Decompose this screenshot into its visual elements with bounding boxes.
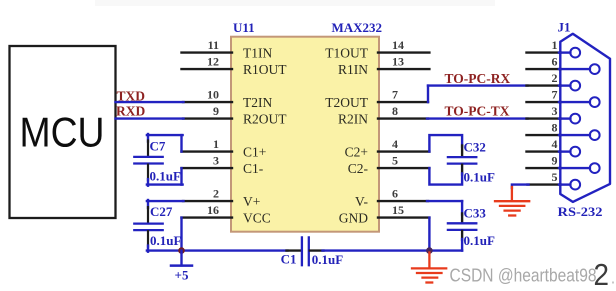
svg-text:R1OUT: R1OUT	[243, 62, 287, 77]
capacitor C33 upper lead	[461, 214, 463, 223]
wire TO-PC-RX vertical elbow at pin 7	[427, 86, 429, 103]
svg-text:C27: C27	[150, 204, 173, 219]
J1 pin 9 stub	[527, 167, 561, 169]
svg-text:RXD: RXD	[116, 104, 145, 119]
J1 pin 8 circle	[590, 130, 600, 140]
capacitor C33 plates	[448, 223, 476, 230]
svg-text:6: 6	[392, 187, 398, 201]
wire C7 upper-left lead	[147, 134, 149, 142]
svg-text:GND: GND	[339, 210, 368, 225]
wire ground bus right segment	[323, 249, 463, 251]
wire +5 bus left segment	[147, 249, 288, 251]
wire C7 top vertical from pin 1	[180, 135, 182, 152]
wire C27 top horizontal from pin 2	[147, 200, 184, 202]
svg-text:0.1uF: 0.1uF	[312, 252, 343, 267]
J1 pin 7 circle	[590, 97, 600, 107]
svg-text:MAX232: MAX232	[331, 20, 382, 35]
pin 15 wire (GND)	[378, 216, 429, 218]
wire J1 pin 5 to ground elbow	[512, 185, 529, 188]
svg-text:2: 2	[213, 187, 219, 201]
svg-text:0.1uF: 0.1uF	[464, 233, 495, 248]
svg-text:TO-PC-TX: TO-PC-TX	[445, 103, 510, 118]
wire C32 lower elbow to pin 5	[429, 168, 462, 185]
J1 pin 6 stub	[527, 68, 561, 70]
J1 pin 5 stub	[528, 183, 561, 185]
svg-text:J1: J1	[558, 20, 571, 35]
power +5 bar	[171, 264, 192, 267]
capacitor C1 right lead	[310, 249, 324, 251]
svg-text:CSDN @heartbeat98: CSDN @heartbeat98	[450, 265, 597, 285]
ground symbol at J1 pin 5	[495, 187, 529, 216]
svg-text:3: 3	[213, 154, 219, 168]
svg-text:R1IN: R1IN	[338, 62, 368, 77]
svg-text:0.1uF: 0.1uF	[464, 169, 495, 184]
svg-text:11: 11	[208, 38, 219, 52]
J1 pin 5 circle	[570, 180, 580, 190]
svg-text:TO-PC-RX: TO-PC-RX	[445, 71, 511, 86]
svg-text:13: 13	[392, 55, 404, 69]
svg-text:VCC: VCC	[243, 210, 271, 225]
svg-text:7: 7	[392, 88, 398, 102]
svg-text:2: 2	[594, 257, 610, 291]
wire GND vertical pin 15 down to bus	[428, 218, 430, 251]
svg-text:U11: U11	[233, 20, 255, 35]
wire TXD from MCU to T2IN	[116, 101, 184, 103]
wire C27 lower lead	[147, 231, 149, 246]
svg-text:MCU: MCU	[20, 109, 105, 156]
svg-text:.: .	[611, 268, 616, 288]
svg-text:4: 4	[392, 137, 398, 151]
J1 pin 3 circle	[570, 114, 580, 124]
pin 5 wire (C2-)	[378, 167, 429, 169]
J1 pin 8 stub	[527, 134, 561, 136]
svg-text:T2IN: T2IN	[243, 95, 272, 110]
wire C27 upper lead	[147, 200, 149, 208]
pin 2 wire (V+)	[183, 200, 232, 202]
svg-text:3: 3	[552, 104, 558, 118]
pin 7 wire (T2OUT)	[378, 101, 428, 103]
svg-text:12: 12	[207, 55, 219, 69]
svg-text:14: 14	[392, 38, 404, 52]
svg-text:6: 6	[552, 55, 558, 69]
ground symbol below bus	[412, 253, 446, 283]
svg-text:7: 7	[552, 88, 558, 102]
junction +5 node	[178, 247, 185, 254]
svg-text:8: 8	[392, 104, 398, 118]
capacitor C32 plates	[448, 157, 476, 164]
MCU block	[10, 46, 116, 218]
junction ground node	[426, 247, 433, 254]
wire C7 lower-left lead	[147, 165, 149, 181]
J1 pin 7 stub	[527, 101, 561, 103]
wire C32 upper elbow from pin 4	[429, 135, 462, 152]
pin 12 wire (R1OUT)	[182, 68, 233, 70]
capacitor C33 lower lead	[461, 231, 463, 240]
svg-text:1: 1	[213, 137, 219, 151]
svg-text:T1IN: T1IN	[243, 45, 272, 60]
pin 16 wire (VCC)	[182, 216, 233, 218]
wire C7 top horizontal	[147, 134, 183, 136]
pin 14 wire (T1OUT)	[378, 51, 429, 53]
svg-text:R2IN: R2IN	[338, 111, 368, 126]
svg-text:5: 5	[392, 154, 398, 168]
pin 10 wire (T2IN)	[183, 101, 232, 103]
svg-text:5: 5	[552, 170, 558, 184]
wire V- vertical down to C33	[461, 201, 463, 214]
J1 pin 1 stub	[527, 51, 561, 53]
svg-text:C32: C32	[464, 139, 486, 154]
pin 1 wire (C1+)	[182, 150, 233, 152]
svg-text:C1+: C1+	[243, 144, 266, 159]
svg-text:9: 9	[213, 104, 219, 118]
svg-text:RS-232: RS-232	[558, 204, 603, 219]
J1 pin 6 circle	[590, 64, 600, 74]
capacitor C32 upper lead	[461, 146, 463, 156]
svg-text:R2OUT: R2OUT	[243, 111, 287, 126]
svg-text:1: 1	[552, 38, 558, 52]
IC U1 (U11 MAX232) chip body	[231, 37, 379, 232]
pin 9 wire (R2OUT)	[183, 117, 232, 119]
svg-text:0.1uF: 0.1uF	[150, 233, 181, 248]
capacitor C7 plates	[134, 157, 162, 164]
wire C33 lower lead to ground bus	[461, 239, 463, 251]
J1 pin 4 circle	[570, 147, 580, 157]
svg-text:C7: C7	[150, 138, 166, 153]
capacitor C27 plates	[134, 224, 162, 231]
J1 pin 4 stub	[527, 150, 561, 152]
wire C7 bottom vertical to pin 3	[180, 168, 182, 185]
capacitor C1 plates	[302, 237, 309, 265]
svg-text:C2-: C2-	[348, 161, 369, 176]
wire C7 bottom horizontal	[147, 183, 183, 185]
J1 pin 1 circle	[570, 48, 580, 58]
wire VCC vertical pin16 down to +5 bus	[180, 218, 182, 251]
svg-text:V-: V-	[355, 194, 369, 209]
pin 4 wire (C2+)	[378, 150, 429, 152]
wire RXD from MCU to R2OUT	[116, 117, 184, 119]
pin 8 wire (R2IN)	[378, 117, 428, 119]
svg-text:4: 4	[552, 137, 558, 151]
wire TO-PC-TX from pin 8 to J1 pin 3	[427, 117, 528, 119]
svg-text:8: 8	[552, 121, 558, 135]
pin 13 wire (R1IN)	[378, 68, 429, 70]
J1 pin 3 stub	[527, 117, 561, 119]
pin 3 wire (C1-)	[182, 167, 233, 169]
svg-text:C1-: C1-	[243, 161, 264, 176]
J1 pin 2 stub	[527, 84, 561, 86]
svg-text:C2+: C2+	[345, 144, 368, 159]
svg-text:16: 16	[207, 203, 219, 217]
svg-text:T1OUT: T1OUT	[325, 45, 368, 60]
svg-text:C33: C33	[464, 205, 487, 220]
capacitor C32 lower lead	[461, 165, 463, 175]
svg-text:+5: +5	[175, 268, 189, 283]
power +5 stem	[180, 251, 182, 266]
pin 6 wire (V-)	[378, 200, 428, 202]
J1 pin 2 circle	[570, 81, 580, 91]
wire TO-PC-RX horizontal to J1 pin 2	[428, 84, 528, 86]
wire V- horizontal from pin 6	[427, 200, 462, 202]
svg-text:15: 15	[392, 203, 404, 217]
svg-text:C1: C1	[281, 252, 297, 267]
J1 pin 9 circle	[590, 163, 600, 173]
pin 11 wire (T1IN)	[182, 51, 233, 53]
svg-text:0.1uF: 0.1uF	[150, 169, 181, 184]
svg-text:10: 10	[207, 88, 219, 102]
capacitor C1 left lead	[287, 249, 301, 251]
svg-text:T2OUT: T2OUT	[325, 95, 368, 110]
svg-text:V+: V+	[243, 194, 260, 209]
svg-text:9: 9	[552, 154, 558, 168]
svg-text:2: 2	[552, 71, 558, 85]
connector J1 DB9 body	[560, 34, 610, 202]
